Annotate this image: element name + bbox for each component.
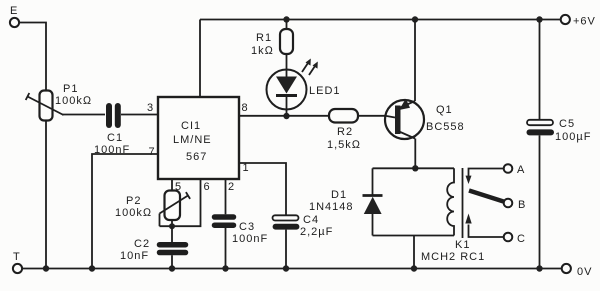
wire Q1 collector down [414,139,416,169]
wire +6V top rail [200,19,561,21]
node P2/C2 junction [169,223,175,229]
svg-text:R2: R2 [337,126,353,138]
svg-text:BC558: BC558 [426,121,465,133]
svg-text:P1: P1 [63,83,78,95]
potentiometer P2 [115,191,190,227]
node C3/rail junction [222,265,228,271]
transistor Q1 BC558 [385,99,465,139]
svg-text:100nF: 100nF [232,233,268,245]
terminal T [13,251,22,273]
node C4/rail junction [283,265,289,271]
capacitor C2 [120,226,186,268]
svg-text:3: 3 [147,102,154,114]
svg-text:C: C [517,233,526,245]
LED LED1 [267,59,341,117]
node pin7/rail junction [89,265,95,271]
wire pin 6 to P2 bottom [160,179,201,226]
svg-text:MCH2 RC1: MCH2 RC1 [421,251,485,263]
node C5/rail junction [536,265,542,271]
svg-text:100µF: 100µF [555,131,591,143]
svg-text:C5: C5 [559,118,575,130]
svg-text:C2: C2 [134,238,150,250]
wire pin 5 to P2 [171,179,173,191]
svg-text:C1: C1 [107,132,123,144]
wire pin 1 to C4 [239,163,286,215]
wire 0V bottom rail [22,268,562,270]
wire P1 wiper to C1 [62,114,105,116]
svg-text:D1: D1 [331,189,347,201]
svg-text:A: A [517,164,525,176]
svg-text:CI1: CI1 [181,120,201,132]
wire relay loop top [373,167,455,169]
capacitor C1 [94,106,130,156]
svg-text:1N4148: 1N4148 [309,201,354,213]
relay contact B pole [469,191,526,212]
svg-text:C3: C3 [239,221,255,233]
wire relay loop bottom [373,235,455,237]
IC U1 CI1 LM/NE567 [158,97,239,179]
svg-text:0V: 0V [577,266,592,278]
terminal +6V [561,15,596,28]
wire P1 bottom to bottom rail [45,121,47,269]
wire IC top to +6V rail [199,20,201,98]
wire E to P1 [19,23,46,91]
svg-text:B: B [518,199,526,211]
svg-text:+6V: +6V [573,16,596,28]
wire Q1 emitter to top rail [414,20,416,102]
svg-text:T: T [13,251,21,263]
svg-text:LED1: LED1 [309,85,341,97]
wire pin 8 to R2 [239,115,329,117]
node R1/rail junction [283,16,289,22]
resistor R2 [327,109,385,151]
resistor R1 [251,20,293,70]
wire pin 7 to bottom rail [92,154,158,269]
svg-text:567: 567 [186,151,207,163]
svg-text:10nF: 10nF [120,250,149,262]
svg-text:7: 7 [149,146,156,158]
relay contact C [465,214,526,246]
node relay/rail junction [411,265,417,271]
relay coil K1 [421,168,485,263]
svg-text:2,2µF: 2,2µF [300,226,333,238]
svg-text:2: 2 [228,181,235,193]
svg-text:100kΩ: 100kΩ [115,207,152,219]
capacitor C5 (electrolytic) [527,20,591,269]
svg-text:R1: R1 [256,32,272,44]
terminal 0V [562,264,593,278]
svg-text:E: E [10,5,18,17]
svg-text:1,5kΩ: 1,5kΩ [327,139,361,151]
svg-text:Q1: Q1 [436,104,453,116]
terminal E [10,5,19,27]
svg-text:6: 6 [204,181,211,193]
capacitor C3 [215,217,269,269]
potentiometer P1 [26,83,93,121]
capacitor C4 (electrolytic) [273,214,334,269]
relay contact A [466,164,526,184]
svg-text:K1: K1 [455,239,470,251]
node P1/rail junction [43,265,49,271]
svg-text:P2: P2 [126,195,141,207]
wire relay to bottom rail [413,236,415,269]
node Q1/rail junction [412,16,418,22]
node Q1 collector / relay junction [412,165,418,171]
diode D1 1N4148 [309,168,383,235]
svg-text:1kΩ: 1kΩ [251,45,274,57]
node C2/rail junction [169,265,175,271]
svg-text:100kΩ: 100kΩ [55,95,92,107]
node below LED1 [283,113,289,119]
svg-text:LM/NE: LM/NE [173,134,212,146]
node C5/rail junction [536,16,542,22]
wire C1 to pin 3 [121,114,158,116]
wire pin 2 to C3 [225,179,227,214]
svg-text:C4: C4 [303,214,319,226]
svg-text:8: 8 [242,102,249,114]
